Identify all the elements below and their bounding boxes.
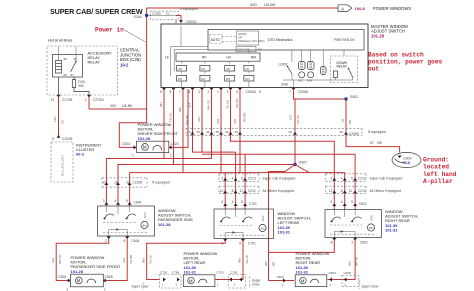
svg-text:1: 1 [217,90,219,94]
switch stack LF [177,61,187,87]
pin 21 C270B [57,95,61,98]
svg-text:C2095: C2095 [152,11,161,15]
svg-text:A-pillar: A-pillar [423,178,453,185]
svg-text:4: 4 [232,176,234,180]
svg-text:DLX_ACC_RLY: DLX_ACC_RLY [61,155,65,176]
switch stack RF [200,61,210,87]
svg-text:400: 400 [250,2,257,7]
svg-text:12: 12 [329,189,333,193]
svg-text:BK: BK [378,141,383,145]
node S307 [293,163,296,166]
wire W3 [182,89,184,173]
svg-text:C504B: C504B [298,90,309,94]
wire 400 LB-BK top bus [147,7,338,9]
wire to pin 8 C504G [176,16,181,21]
wire motor to switch pin 3 [172,89,188,147]
svg-text:C528: C528 [58,275,66,279]
svg-text:3: 3 [198,90,200,94]
svg-text:400: 400 [258,48,263,52]
svg-text:C2108: C2108 [133,180,143,184]
svg-text:Crew: Crew [252,282,260,286]
bus C [106,159,211,207]
accessory delay relay [53,55,83,78]
svg-text:12: 12 [220,189,224,193]
instrument cluster [51,142,73,182]
svg-text:8: 8 [175,20,177,24]
svg-text:3: 3 [103,199,105,203]
left rear switch bottom pins [223,239,227,242]
svg-text:163: 163 [289,115,293,120]
vcc block [236,47,256,52]
svg-text:981: 981 [159,102,163,107]
svg-text:TN-LB: TN-LB [169,113,173,122]
bus B power [202,154,355,209]
svg-text:C504G: C504G [186,20,197,24]
svg-text:101-28: 101-28 [71,269,84,274]
svg-text:85: 85 [64,73,68,77]
svg-text:982: 982 [178,107,182,112]
svg-text:Super Crew: Super Crew [362,285,380,289]
svg-text:982: 982 [347,261,351,266]
svg-text:313: 313 [197,117,201,122]
pin 1 C270N [87,95,91,98]
svg-text:Based on switch: Based on switch [368,52,424,59]
svg-text:ACC: ACC [261,214,265,221]
svg-text:All Others if equipped: All Others if equipped [263,189,295,193]
wire to driver motor [119,109,146,147]
wire rr pin8 to rr motor left [269,240,335,253]
svg-text:36: 36 [289,130,293,134]
contact pills [299,62,306,70]
svg-text:LB-BK: LB-BK [264,2,276,7]
window adjust switch passenger side [98,206,155,236]
wire 400 LB-BK from CJB [88,97,90,110]
svg-text:UP: UP [178,67,182,71]
svg-text:101-28: 101-28 [138,136,151,141]
svg-text:60-3: 60-3 [76,152,85,157]
svg-text:DN: DN [201,77,205,81]
wire pass pin6 to front motor [106,238,127,281]
svg-text:C212: C212 [358,177,366,181]
svg-text:30A: 30A [78,84,85,88]
svg-text:C604: C604 [132,239,140,243]
svg-text:100-8: 100-8 [355,6,366,11]
svg-text:3: 3 [221,200,223,204]
svg-text:1: 1 [132,154,134,158]
svg-text:YE-RD: YE-RD [129,254,133,264]
svg-text:DN(delay)x VCC UP(x): DN(delay)x VCC UP(x) [238,39,265,43]
node A circuit arrow POWER WINDOWS [338,5,352,12]
svg-text:5: 5 [259,90,261,94]
svg-text:11: 11 [349,189,353,193]
svg-text:LF: LF [165,56,169,60]
svg-text:C603: C603 [329,271,337,275]
svg-text:4: 4 [341,200,343,204]
internal feed lines [180,26,182,47]
svg-text:101-31: 101-31 [184,270,197,275]
svg-text:DTD Electronics: DTD Electronics [268,38,293,42]
svg-text:S502: S502 [350,95,358,99]
svg-text:ACC: ACC [143,211,147,218]
svg-text:11: 11 [240,189,244,193]
svg-text:8: 8 [232,189,234,193]
svg-text:M: M [77,278,81,283]
svg-text:S307: S307 [299,161,307,165]
svg-text:87: 87 [71,73,75,77]
svg-text:Super Cab if equipped: Super Cab if equipped [263,177,296,181]
wire: power feed vertical [146,8,148,109]
svg-text:C601: C601 [360,241,368,245]
svg-text:45: 45 [340,130,344,134]
wire lr pin6 to lr motor [215,241,243,280]
svg-text:6: 6 [239,242,241,246]
wire W9 [239,89,241,173]
ground G300 [392,152,421,167]
svg-text:10: 10 [166,11,170,15]
svg-text:4: 4 [114,199,116,203]
svg-text:C726: C726 [160,271,168,275]
svg-text:C213: C213 [248,177,256,181]
svg-text:15D: 15D [53,116,57,122]
svg-text:101-31: 101-31 [278,230,291,235]
svg-text:8: 8 [331,241,333,245]
svg-text:M: M [143,145,147,150]
svg-text:YE-LB: YE-LB [245,255,249,264]
svg-text:6: 6 [124,239,126,243]
svg-text:C504A: C504A [246,90,257,94]
wire W6 [211,89,213,159]
passenger switch bottom pins [107,236,111,239]
svg-text:G300: G300 [403,156,412,160]
wire W4 [193,89,236,152]
svg-text:3: 3 [221,176,223,180]
svg-text:5: 5 [351,200,353,204]
svg-text:PWR REN DN: PWR REN DN [334,38,355,42]
svg-text:C222B: C222B [62,137,73,141]
svg-text:C604: C604 [134,201,142,205]
svg-text:101-31: 101-31 [296,270,309,275]
svg-text:BOX (CJB): BOX (CJB) [120,57,141,62]
svg-text:101-28: 101-28 [371,34,385,39]
svg-text:SUPER CAB/ SUPER CREW: SUPER CAB/ SUPER CREW [50,7,143,16]
svg-text:Ground:: Ground: [423,157,449,164]
master switch bottom pins C504A [162,88,166,91]
node S502 [344,97,347,100]
svg-text:C603: C603 [277,275,285,279]
svg-text:19-2: 19-2 [120,63,129,68]
svg-text:57: 57 [341,118,345,122]
svg-text:RR: RR [251,56,256,60]
svg-text:UP: UP [245,67,249,71]
svg-text:M: M [189,278,193,283]
svg-text:BR-YE: BR-YE [355,257,359,266]
svg-text:left hand: left hand [423,171,457,178]
svg-text:2: 2 [170,154,172,158]
wire pin7 to S502 [294,89,347,99]
svg-text:C212: C212 [358,189,366,193]
right rear switch bottom pins [332,238,336,241]
svg-text:Power in: Power in [95,27,124,34]
down relay [331,56,358,83]
svg-text:All Others if equipped: All Others if equipped [370,189,402,193]
svg-text:C212: C212 [248,189,256,193]
svg-text:57: 57 [370,141,374,145]
wire down from C504B [294,99,296,165]
svg-text:YE-LG: YE-LG [296,114,300,124]
svg-text:101-28: 101-28 [158,222,171,227]
master window adjust switch U1 [161,24,368,88]
bus D [118,165,295,207]
svg-text:2: 2 [67,288,69,291]
svg-text:C628: C628 [344,271,352,275]
svg-text:C270N: C270N [93,98,104,102]
wire relay pin 85 to pin 21 [58,77,60,95]
svg-text:986: 986 [141,258,145,263]
svg-text:B/U: B/U [369,226,373,230]
connector rows C212 right rear [326,174,403,182]
svg-text:5: 5 [52,137,54,141]
svg-text:39: 39 [206,130,210,134]
svg-text:LB: LB [61,120,65,124]
svg-text:400: 400 [110,104,116,108]
svg-text:2: 2 [105,239,107,243]
svg-text:5: 5 [126,199,128,203]
svg-text:DN: DN [178,77,182,81]
svg-text:86: 86 [64,57,68,61]
wire W5 [201,89,203,152]
svg-text:36: 36 [197,130,201,134]
svg-text:333: 333 [122,258,126,263]
svg-text:M: M [301,278,305,283]
fuse F401 30A [73,77,75,80]
svg-text:8: 8 [189,90,191,94]
connector rows C213/C212 left rear [219,174,295,182]
svg-text:If equipped: If equipped [368,130,386,134]
svg-text:C2095: C2095 [349,132,359,136]
svg-text:3: 3 [330,200,332,204]
svg-text:8: 8 [341,189,343,193]
wire lr pin2 to lr motor [147,241,226,280]
svg-text:C705: C705 [230,271,238,275]
svg-text:4: 4 [232,200,234,204]
svg-text:5: 5 [241,176,243,180]
svg-text:SH-DG: SH-DG [235,98,239,108]
switch stack RR [244,61,254,87]
svg-text:Super Cab if equipped: Super Cab if equipped [370,177,403,181]
svg-text:3: 3 [227,90,229,94]
svg-text:C524: C524 [171,142,179,146]
svg-text:C601: C601 [359,202,367,206]
relay feed wires [58,47,60,61]
svg-text:GND: GND [281,82,289,86]
svg-text:987: 987 [264,261,268,266]
svg-text:1: 1 [85,98,87,102]
svg-text:If equipped: If equipped [180,7,198,11]
svg-text:314: 314 [188,103,192,108]
svg-text:RELAY: RELAY [337,65,348,69]
svg-text:out: out [368,66,379,73]
wire W2 [173,89,175,165]
wire S307 left branch [269,165,296,281]
svg-text:C701: C701 [248,242,256,246]
svg-text:S344: S344 [134,15,142,19]
svg-text:Hot at all times: Hot at all times [48,39,73,43]
wire W1 [163,89,165,159]
svg-text:985: 985 [238,258,242,263]
svg-text:POWER WINDOWS: POWER WINDOWS [373,6,411,11]
window adjust switch right rear [325,210,382,238]
svg-text:If equipped: If equipped [152,180,170,184]
wire W7 [220,89,222,173]
connector C628 super crew right [342,276,359,287]
svg-text:9: 9 [160,90,162,94]
svg-text:Super Crew: Super Crew [132,284,150,288]
svg-text:38: 38 [216,130,220,134]
svg-text:1: 1 [104,288,106,291]
connector C726/C706 super crew left [160,275,182,289]
connector C2095 inline (if equipped) [151,11,179,20]
svg-text:BK: BK [348,120,352,124]
auto switch [210,35,223,44]
inner electronics box [208,30,364,51]
wire S307 branch to rr motor [269,280,295,282]
wire rr pin2 to rr motor right [328,240,356,280]
svg-text:10-8: 10-8 [403,161,410,165]
svg-text:ACC: ACC [370,214,374,221]
svg-text:LR: LR [227,56,232,60]
svg-text:B/U: B/U [143,223,147,227]
svg-text:B/U: B/U [261,226,265,230]
svg-text:4: 4 [236,90,238,94]
svg-text:LB-BK: LB-BK [122,104,133,108]
svg-text:5: 5 [170,90,172,94]
svg-text:RD-YE: RD-YE [58,255,62,264]
svg-text:2: 2 [208,90,210,94]
svg-text:C706: C706 [172,271,180,275]
svg-text:UP: UP [226,67,230,71]
connector C703/C705 super crew right [229,275,246,289]
svg-text:21: 21 [51,98,55,102]
svg-text:YE-LB: YE-LB [226,100,230,109]
wire pass pin2 to front motor [56,238,108,281]
svg-text:C701: C701 [249,202,257,206]
svg-text:43: 43 [225,130,229,134]
svg-text:30: 30 [74,57,78,61]
svg-text:7: 7 [179,90,181,94]
svg-text:C703: C703 [217,271,225,275]
svg-text:WH-BK: WH-BK [185,115,189,125]
svg-text:AUTO: AUTO [211,38,221,42]
svg-text:YE-LB: YE-LB [149,255,153,264]
window adjust switch left rear [214,209,274,239]
svg-text:WH-YE: WH-YE [207,100,211,110]
svg-text:C524: C524 [122,142,130,146]
node S344 [145,14,148,17]
svg-text:RELAY: RELAY [88,59,101,64]
svg-text:VCC+VCC: VCC+VCC [238,48,251,52]
switch bus box RF LR RR [176,53,260,61]
svg-text:44: 44 [235,130,239,134]
gnd [283,79,353,81]
svg-text:position, power goes: position, power goes [368,59,443,66]
svg-text:5: 5 [351,176,353,180]
svg-text:LOCK: LOCK [279,62,289,66]
svg-text:DN: DN [226,77,230,81]
svg-text:C528: C528 [105,275,113,279]
svg-text:DN: DN [245,77,249,81]
svg-text:40: 40 [187,130,191,134]
svg-text:UP: UP [238,36,242,40]
connector C2108 [102,178,170,187]
svg-text:RF: RF [202,56,207,60]
svg-text:C270B: C270B [62,98,73,102]
wire W8 [231,89,335,210]
switch stack LR [225,61,235,87]
svg-text:located: located [423,164,449,171]
svg-text:2: 2 [351,241,353,245]
bus E [130,173,345,210]
svg-text:318: 318 [216,119,220,124]
svg-text:7: 7 [289,90,291,94]
svg-text:314: 314 [51,258,55,263]
svg-text:315: 315 [233,119,237,124]
svg-text:UP: UP [201,67,205,71]
svg-text:101-31: 101-31 [385,228,398,233]
svg-text:RD-BK: RD-BK [243,113,247,122]
connector row C2095 [186,128,386,136]
wire 15D LB to instrument cluster [58,97,60,138]
svg-text:5: 5 [241,200,243,204]
svg-text:3: 3 [330,176,332,180]
svg-text:4: 4 [341,176,343,180]
wire S502 to ground [346,99,400,153]
wire S307 right branch [295,165,309,173]
